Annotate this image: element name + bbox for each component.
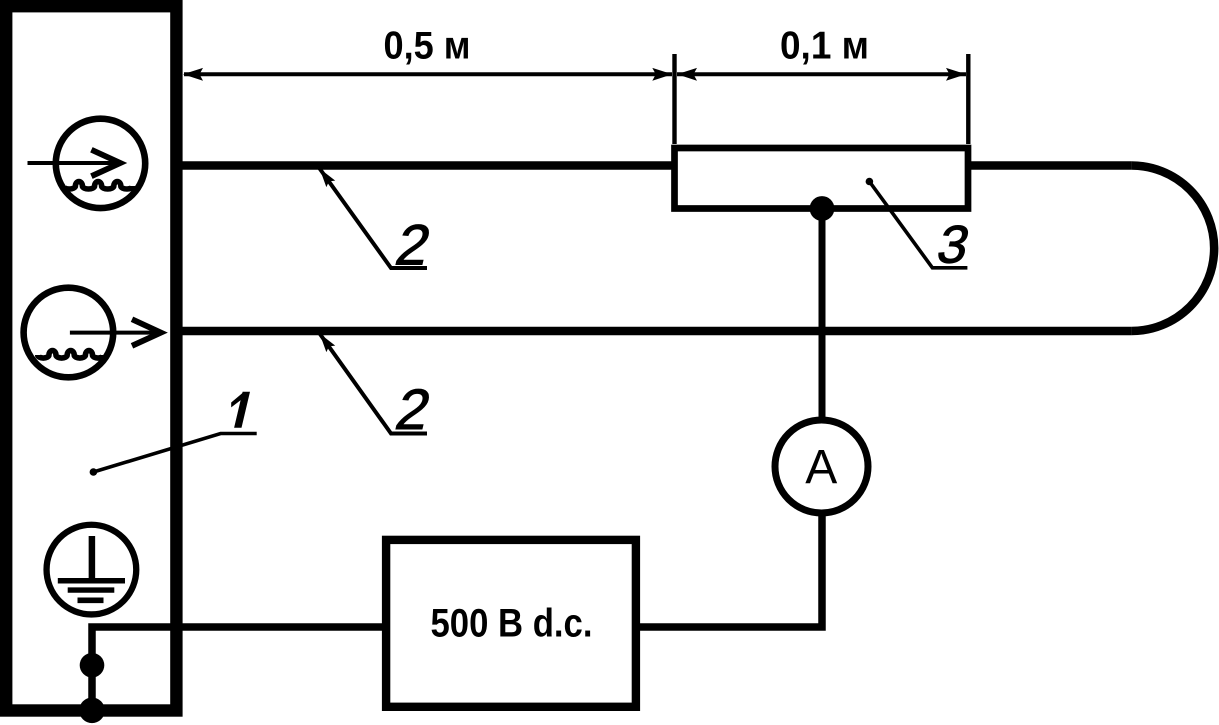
dimension line 0,1 m xyxy=(677,72,966,76)
dimension arrow 0,1 m left xyxy=(677,68,697,81)
dimension arrow 0,5 m left xyxy=(183,68,203,81)
wire: ammeter down and left to voltage source xyxy=(638,510,822,627)
leader dot for label 1 xyxy=(90,468,98,476)
earth symbol bar 3 xyxy=(78,597,104,603)
node: junction dot inside bath on wire xyxy=(80,653,105,678)
electrode sleeve 3 (rectangle over top pipe) xyxy=(675,148,969,209)
node: junction dot on bath bottom wall xyxy=(79,698,105,724)
wire: top pipe of heating element 2 xyxy=(178,161,1131,170)
svg-text:500 В d.c.: 500 В d.c. xyxy=(431,602,593,646)
earth symbol bar 1 xyxy=(58,578,125,584)
earth symbol bar 2 xyxy=(68,587,115,592)
leader dot for label 3 xyxy=(866,178,874,186)
water inlet arrow chevron xyxy=(91,150,120,177)
dimension arrow 0,1 m right xyxy=(946,68,966,81)
leader arrowhead 2 upper xyxy=(315,165,335,187)
dimension arrow 0,5 m right xyxy=(652,68,672,81)
wire: electrode junction to ammeter xyxy=(819,205,826,425)
svg-text:0,5 м: 0,5 м xyxy=(384,24,471,67)
500 V d.c. source box xyxy=(386,540,636,707)
water bath enclosure 1 xyxy=(6,6,176,710)
water outlet wave line xyxy=(38,351,104,359)
water inlet wave line xyxy=(63,182,133,190)
dimension extension line right (at electrode right edge) xyxy=(966,54,970,144)
wire: U-bend at right end of heating element 2 xyxy=(1131,166,1214,332)
leader for label 2 upper xyxy=(320,169,427,269)
water inlet arrow shaft xyxy=(28,161,119,165)
leader for label 1 xyxy=(93,434,256,473)
dimension line 0,5 m xyxy=(184,72,672,76)
svg-text:A: A xyxy=(805,441,837,494)
ammeter A1 circle xyxy=(775,420,868,513)
label 1 xyxy=(231,392,250,428)
wire: voltage source left to bath and down to bath bottom xyxy=(92,627,384,712)
earth symbol vertical stem xyxy=(89,536,96,580)
node: junction dot on electrode bottom edge xyxy=(810,196,835,221)
wire: bottom pipe of heating element 2 xyxy=(178,327,1131,336)
leader for label 3 xyxy=(869,182,967,268)
water inlet symbol circle xyxy=(56,119,145,208)
water outlet arrow shaft xyxy=(70,331,158,335)
dimension extension line left (at electrode left edge) xyxy=(672,54,676,144)
water outlet arrow chevron xyxy=(132,319,161,346)
leader for label 2 lower xyxy=(320,334,427,434)
svg-text:0,1 м: 0,1 м xyxy=(780,24,869,67)
water outlet symbol circle xyxy=(24,288,114,378)
leader arrowhead 2 lower xyxy=(315,330,335,352)
protective earth symbol circle xyxy=(47,525,137,615)
